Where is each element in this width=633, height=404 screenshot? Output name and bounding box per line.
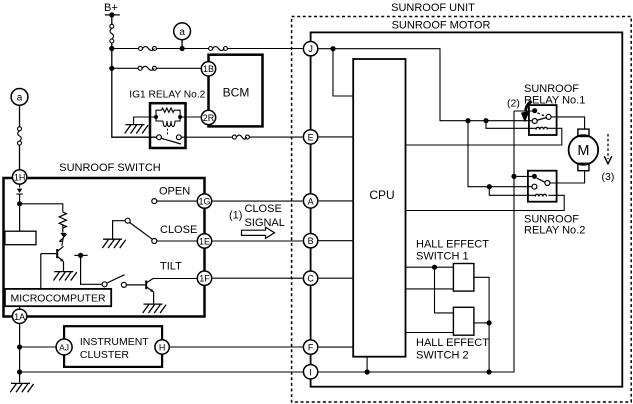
motor bottom terminal [578, 163, 589, 170]
svg-text:(3): (3) [602, 171, 615, 183]
close pivot contact [125, 218, 130, 223]
connector 1G [197, 194, 211, 208]
junctions on relay feed wire [465, 118, 470, 123]
junction hall to I [487, 369, 492, 374]
svg-text:SIGNAL: SIGNAL [245, 217, 285, 229]
wire to AJ [20, 346, 56, 348]
junction hall branch [432, 265, 437, 270]
svg-text:HALL EFFECT: HALL EFFECT [416, 337, 489, 349]
wire 1F to C [213, 277, 303, 279]
wire hall2 out [474, 322, 489, 324]
relay1 arm [537, 118, 546, 121]
wire relay2 coil left lead [489, 187, 535, 196]
svg-text:1B: 1B [203, 64, 214, 74]
fuse on E wire [232, 135, 249, 139]
wire hall1 out [474, 277, 489, 372]
svg-text:CLUSTER: CLUSTER [80, 349, 129, 361]
junction CPU to I [365, 369, 370, 374]
connector J [303, 42, 317, 56]
wire Q2 emitter to ground [153, 292, 155, 304]
connector 1A [12, 309, 26, 323]
actuation arrow (2) [526, 101, 532, 111]
svg-text:CLOSE: CLOSE [245, 203, 282, 215]
motion arrow (3) [607, 134, 609, 159]
ground (Q1) [53, 272, 76, 281]
wire A to CPU [319, 200, 354, 202]
wire B to CPU [319, 240, 354, 242]
connector 1B [201, 62, 215, 76]
IG1 relay dashed actuator [167, 129, 169, 136]
ground (IG1 relay) [125, 125, 148, 134]
svg-text:A: A [308, 196, 314, 206]
svg-text:2R: 2R [203, 113, 215, 123]
wire Q1 base to microcomputer [40, 254, 42, 289]
svg-text:1F: 1F [199, 274, 210, 284]
relay1 dashed arm [538, 113, 545, 116]
fuse on row1 left [139, 47, 157, 51]
relay1 common contact [532, 108, 537, 113]
wire C to CPU [319, 277, 354, 279]
component box on 1H line [5, 231, 36, 245]
relay2 NO contact [545, 181, 550, 186]
connector H [155, 340, 169, 354]
svg-text:1E: 1E [199, 237, 210, 247]
junction on B+ wire at row2 [109, 66, 114, 71]
transistor Q1 [41, 246, 64, 261]
wire close contact to 1E [157, 240, 197, 242]
connector E [303, 130, 317, 144]
diode below 1H [17, 189, 22, 193]
relay1 NO contact [546, 114, 551, 119]
fusible link on a2 wire [18, 127, 22, 145]
tilt switch contact 2 [121, 282, 126, 287]
wire CPU bottom tap [366, 357, 368, 372]
svg-text:SUNROOF MOTOR: SUNROOF MOTOR [392, 20, 491, 32]
svg-text:C: C [307, 274, 314, 284]
tilt switch contact 1 [102, 282, 107, 287]
relay1 NC contact [532, 119, 537, 124]
svg-text:(2): (2) [507, 98, 520, 110]
svg-text:MICROCOMPUTER: MICROCOMPUTER [10, 293, 105, 305]
wire CPU to hall1 bottom [406, 288, 454, 290]
wire relay commons to I [514, 110, 535, 112]
svg-text:CLOSE: CLOSE [160, 224, 197, 236]
wire Q1 emitter to ground [63, 262, 65, 272]
IG1 relay coil+resistor [156, 108, 180, 127]
connector a (left) [11, 89, 28, 106]
motor top terminal [578, 129, 589, 136]
junction AJ branch [17, 344, 22, 349]
wire IG1 coil left to ground [134, 117, 154, 125]
wire B+ to 1B (row2) [112, 67, 201, 69]
fuse on row1 right [209, 47, 228, 51]
wire Q2 collector to 1F [153, 278, 197, 280]
wire junction to resistor [20, 204, 63, 212]
wire CPU to hall1 top [406, 266, 454, 268]
ground (body) [10, 383, 33, 392]
connector 1E [197, 234, 211, 248]
svg-text:SWITCH 2: SWITCH 2 [416, 350, 469, 362]
sunroof motor box [311, 32, 623, 386]
connector A [303, 194, 317, 208]
connector C [303, 271, 317, 285]
wire IG1 switch out to E with fuse [181, 136, 302, 138]
wire a1 stub [181, 40, 183, 49]
junction below diode [17, 201, 22, 206]
wire relay2 NO to motor [550, 171, 585, 183]
relay1 coil [536, 127, 547, 129]
wire J branch to CPU [333, 49, 353, 96]
wire 1A down to ground [19, 324, 21, 382]
svg-text:a: a [179, 27, 185, 38]
connector 2R [201, 110, 215, 124]
svg-text:SUNROOF UNIT: SUNROOF UNIT [391, 2, 475, 14]
wire CPU to relay2 coil [406, 195, 565, 210]
wire relay1 NO to motor [551, 117, 585, 129]
ground (Q2) [143, 304, 166, 313]
svg-text:1A: 1A [14, 312, 25, 322]
close signal block arrow [242, 227, 275, 238]
junction relay2 coil branch [487, 184, 492, 189]
svg-text:CPU: CPU [369, 188, 394, 202]
wire F to CPU [319, 346, 354, 348]
wire E to CPU [319, 136, 354, 138]
svg-text:INSTRUMENT: INSTRUMENT [80, 336, 149, 348]
wire microcomputer to 1A [19, 306, 21, 310]
svg-text:1H: 1H [14, 173, 26, 183]
wire I line inside unit [319, 111, 514, 372]
wire H to F [170, 346, 303, 348]
sunroof relay No.1 box [529, 105, 557, 135]
B+ terminal [105, 15, 120, 24]
svg-text:TILT: TILT [160, 261, 182, 273]
connector AJ [56, 339, 72, 355]
svg-text:IG1 RELAY No.2: IG1 RELAY No.2 [129, 90, 205, 101]
connector B [303, 234, 317, 248]
IG1 relay box [150, 103, 186, 148]
connector 1H [12, 170, 26, 184]
svg-text:BCM: BCM [223, 86, 250, 100]
IG1 relay switch [157, 135, 182, 144]
resistor (switch illumination) [59, 212, 66, 232]
wire close pivot to ground [113, 221, 126, 240]
connector a (top) [174, 23, 191, 40]
svg-text:HALL EFFECT: HALL EFFECT [416, 239, 489, 251]
fusible link on B+ wire [110, 24, 114, 43]
BCM box [209, 55, 263, 127]
svg-text:F: F [308, 343, 314, 353]
svg-text:E: E [308, 132, 314, 142]
wire B+ vertical [112, 43, 157, 137]
close contact [152, 239, 157, 244]
ground (close switch) [102, 239, 125, 248]
wire open contact to 1G [157, 200, 197, 202]
svg-text:H: H [159, 343, 166, 353]
zener diode [60, 233, 66, 237]
open contact [152, 199, 157, 204]
sunroof switch box [4, 178, 205, 317]
fuse on row2 [138, 66, 156, 70]
junction on B+ wire at row1 [109, 46, 114, 51]
wire CPU to relay1 coil [406, 128, 562, 145]
tilt switch arm [107, 275, 125, 283]
SUNROOF UNIT dashed boundary [292, 17, 632, 403]
svg-text:(1): (1) [229, 210, 242, 222]
wire tilt contact to Q2 base [126, 284, 145, 286]
wire IG1 coil to 2R [182, 116, 200, 118]
wire stub to tilt switch [81, 255, 103, 284]
transistor Q2 [146, 279, 153, 292]
relay2 NC contact [532, 184, 537, 189]
svg-text:1G: 1G [198, 197, 210, 207]
svg-text:OPEN: OPEN [159, 186, 190, 198]
junction I branch [17, 369, 22, 374]
wire 1H down [19, 185, 21, 231]
wire branch to hall2 [435, 267, 454, 313]
svg-text:B: B [308, 236, 314, 246]
wire 1E to B [213, 240, 303, 242]
svg-text:I: I [309, 367, 312, 377]
wire J to relay feed [319, 49, 532, 121]
svg-text:SUNROOF: SUNROOF [524, 83, 579, 95]
junction hall2 out [487, 320, 492, 325]
junction a-branch row1 [180, 46, 185, 51]
relay2 coil [535, 194, 546, 196]
junction relay2 common [511, 174, 516, 179]
svg-text:SWITCH 1: SWITCH 1 [416, 251, 469, 263]
svg-text:M: M [577, 143, 589, 159]
junction J branch [330, 46, 335, 51]
wire I ground line [20, 371, 303, 373]
svg-text:RELAY No.2: RELAY No.2 [524, 225, 585, 237]
close switch arm [130, 222, 153, 239]
svg-text:a: a [17, 93, 23, 104]
wire 1G to A [213, 200, 303, 202]
CPU box [353, 59, 405, 357]
connector I [303, 365, 317, 379]
wire CPU to hall2 bottom [406, 332, 454, 334]
relay2 arm [537, 178, 546, 182]
svg-text:SUNROOF SWITCH: SUNROOF SWITCH [59, 162, 160, 174]
svg-text:AJ: AJ [59, 343, 69, 353]
wire relay1 coil left lead [486, 121, 536, 129]
tilt feed stub [74, 254, 87, 256]
hall effect switch 2 box [453, 307, 474, 335]
MICROCOMPUTER box [5, 289, 111, 306]
svg-text:B+: B+ [104, 2, 118, 14]
sunroof relay No.2 box [528, 171, 557, 202]
wire relay2 common [514, 175, 534, 177]
motor M [569, 135, 599, 165]
hall effect switch 1 box [453, 264, 474, 292]
wire B+ to J (row1) [112, 48, 303, 50]
wire a2 down [19, 105, 21, 169]
svg-text:J: J [308, 44, 313, 54]
connector 1F [197, 271, 211, 285]
relay2 common contact [532, 174, 537, 179]
wire branch to relay2 NC [468, 121, 532, 187]
connector F [303, 340, 317, 354]
instrument cluster box [64, 326, 162, 367]
